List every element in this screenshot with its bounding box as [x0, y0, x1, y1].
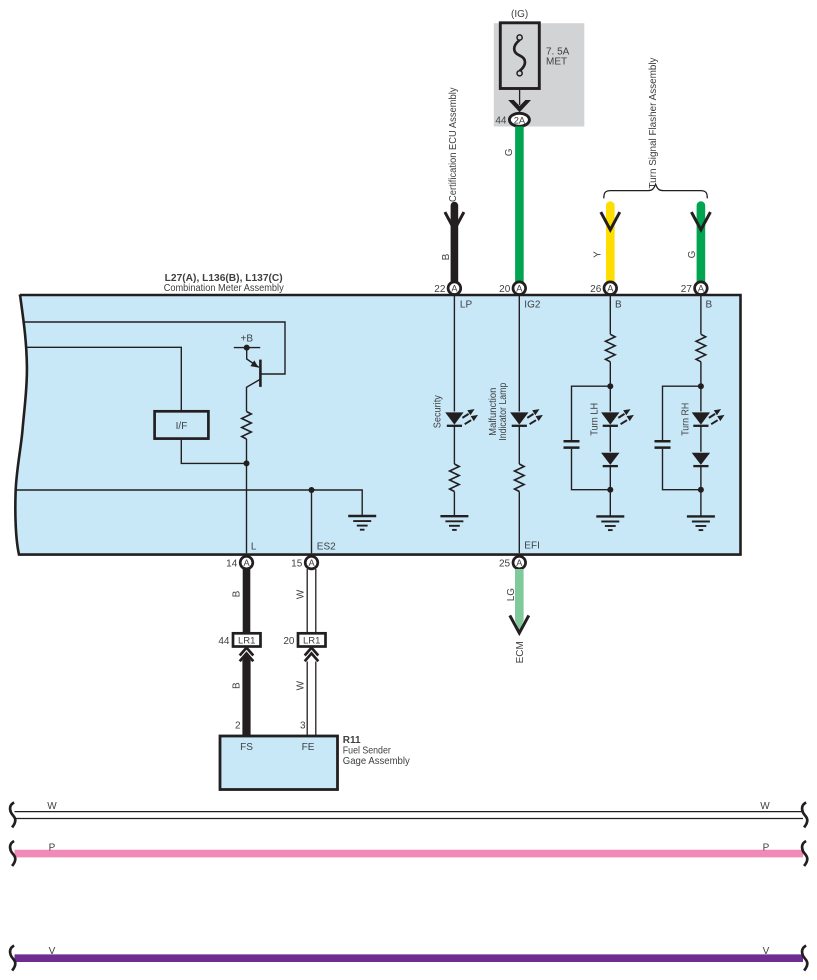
svg-text:B: B — [441, 253, 452, 260]
svg-text:Y: Y — [592, 251, 603, 258]
svg-text:+B: +B — [241, 334, 254, 345]
svg-text:(IG): (IG) — [511, 9, 528, 20]
svg-text:20: 20 — [283, 636, 295, 647]
svg-text:27: 27 — [681, 284, 693, 295]
svg-text:LG: LG — [506, 588, 517, 602]
svg-text:Turn Signal Flasher Assembly: Turn Signal Flasher Assembly — [648, 58, 659, 189]
svg-text:B: B — [232, 590, 243, 597]
svg-text:15: 15 — [291, 558, 303, 569]
svg-text:LR1: LR1 — [303, 636, 320, 647]
svg-text:IG2: IG2 — [524, 300, 541, 311]
svg-text:Turn RH: Turn RH — [680, 403, 691, 436]
svg-text:W: W — [760, 801, 770, 812]
svg-text:G: G — [687, 250, 698, 258]
svg-text:Certification ECU Assembly: Certification ECU Assembly — [448, 88, 459, 203]
svg-text:Indicator Lamp: Indicator Lamp — [498, 382, 509, 440]
svg-text:Turn LH: Turn LH — [590, 403, 601, 436]
svg-text:L: L — [251, 542, 257, 553]
svg-text:22: 22 — [434, 284, 446, 295]
svg-text:FE: FE — [302, 742, 315, 753]
svg-text:P: P — [763, 842, 770, 853]
svg-text:B: B — [706, 300, 713, 311]
svg-text:44: 44 — [218, 636, 230, 647]
svg-text:20: 20 — [499, 284, 511, 295]
svg-text:W: W — [47, 801, 57, 812]
svg-text:2: 2 — [235, 721, 241, 732]
svg-text:ES2: ES2 — [317, 542, 336, 553]
svg-text:26: 26 — [590, 284, 602, 295]
svg-text:I/F: I/F — [176, 421, 188, 432]
svg-text:ECM: ECM — [515, 641, 526, 663]
svg-text:Security: Security — [433, 395, 444, 428]
svg-text:B: B — [615, 300, 622, 311]
svg-text:Combination Meter Assembly: Combination Meter Assembly — [164, 283, 284, 294]
svg-text:W: W — [295, 680, 306, 690]
svg-text:G: G — [504, 148, 515, 156]
svg-text:V: V — [763, 946, 770, 957]
svg-text:LP: LP — [460, 300, 473, 311]
svg-text:3: 3 — [300, 721, 306, 732]
svg-text:FS: FS — [240, 742, 253, 753]
svg-text:MET: MET — [546, 57, 567, 68]
svg-text:B: B — [232, 682, 243, 689]
svg-text:EFI: EFI — [524, 541, 540, 552]
svg-text:25: 25 — [499, 558, 511, 569]
svg-text:Gage Assembly: Gage Assembly — [343, 756, 410, 767]
svg-text:44: 44 — [495, 116, 507, 127]
svg-text:W: W — [295, 589, 306, 599]
svg-text:P: P — [49, 842, 56, 853]
svg-text:Fuel Sender: Fuel Sender — [343, 745, 392, 756]
svg-text:2A: 2A — [514, 115, 526, 125]
svg-text:LR1: LR1 — [238, 636, 255, 647]
svg-text:14: 14 — [226, 558, 238, 569]
svg-text:V: V — [49, 946, 56, 957]
